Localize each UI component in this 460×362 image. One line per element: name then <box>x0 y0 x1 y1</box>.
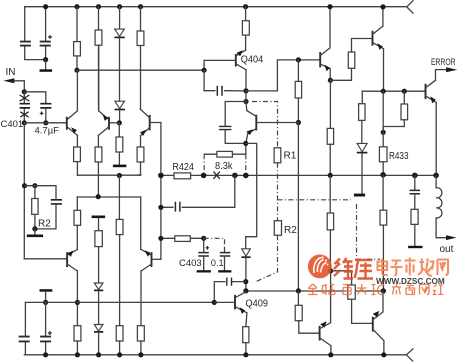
wire T5 emitter to T6 base resistor <box>330 68 351 80</box>
node bus / 8.3k right <box>243 173 249 179</box>
watermark logo circle <box>308 255 331 278</box>
transistor Q409 <box>234 295 236 310</box>
node bus / cap drop <box>232 173 238 179</box>
bottom-left ground bar <box>40 289 53 292</box>
node cap-h left <box>158 205 163 210</box>
resistor mid-h (x=161 to C403) <box>161 237 204 239</box>
node bottom-left <box>43 300 48 305</box>
resistor R2 (in dashed chain) <box>274 221 281 236</box>
resistor R-b (T2 emitter load) <box>98 7 100 111</box>
transistor T8 (driver PNP) <box>319 326 321 341</box>
diode D2 <box>115 101 125 108</box>
svg-text:Q409: Q409 <box>246 298 269 310</box>
node Q404 base drop <box>202 68 207 73</box>
svg-text:IN: IN <box>6 67 16 78</box>
resistor x=404 <box>403 91 405 104</box>
capacitor C-filter3 bottom-left <box>19 337 30 342</box>
node VAS bus left <box>243 288 248 293</box>
node rail T5 <box>327 4 332 9</box>
wire input lead <box>14 81 24 92</box>
svg-text:8.3k: 8.3k <box>215 160 233 172</box>
diode x=98 upper <box>94 283 103 290</box>
svg-text:R2: R2 <box>38 219 51 230</box>
wire Q404 base <box>204 60 236 70</box>
svg-text:R2: R2 <box>284 225 297 236</box>
wire output bus y=175.4 <box>161 174 436 176</box>
node Q404 collector <box>243 88 248 93</box>
node rail T6 <box>380 4 385 9</box>
resistor under T2 base node <box>118 123 120 165</box>
transistor T10 (lower-left PNP) <box>66 252 68 267</box>
node x383 join <box>381 130 386 135</box>
svg-text:R433: R433 <box>389 151 409 162</box>
wire x=298 long drop <box>297 123 299 292</box>
node bus inductor <box>433 173 439 179</box>
node R2 tap <box>22 183 27 188</box>
negative supply terminal chevron <box>406 349 413 361</box>
transistor T9 (driver PNP) <box>372 317 374 332</box>
node line-A / lower chain <box>117 173 122 178</box>
node input <box>22 89 27 94</box>
wire top supply rail <box>25 6 407 8</box>
diode x=362 <box>357 143 367 151</box>
wire y=91.2 bus <box>362 90 425 92</box>
diode D1 <box>119 7 121 29</box>
node bus zobel <box>412 173 418 179</box>
svg-text:0.1: 0.1 <box>211 258 224 268</box>
diode x=98 lower <box>94 325 103 332</box>
node 4.7uF out <box>43 120 48 125</box>
wire 8.3k right to emitter node <box>245 143 247 154</box>
x=119 lower chain resistor 2 <box>116 326 123 341</box>
input terminal arrow <box>3 78 14 83</box>
resistor T1 emitter <box>74 147 81 162</box>
transistor T1 (input NPN) <box>66 117 68 130</box>
capacitor zobel <box>414 175 416 190</box>
ground R2 <box>34 229 36 235</box>
node rail Q404 resistor <box>243 4 248 9</box>
capacitor Q404 base-collector <box>204 70 246 91</box>
node Qmid collector top <box>243 99 248 104</box>
wire emitter to VAS column <box>246 143 257 248</box>
dashed 8.3k left drop <box>203 154 205 175</box>
svg-text:C403: C403 <box>179 258 202 269</box>
svg-text:C401: C401 <box>1 119 24 130</box>
positive supply terminal chevron <box>407 1 413 13</box>
node Q409 feedback cap <box>243 279 248 284</box>
node top rail / cap2 <box>43 4 48 9</box>
resistor x=330 upper <box>329 80 331 128</box>
resistor R424 <box>174 173 191 179</box>
transistor T11 (lower-mid PNP) <box>151 252 153 267</box>
wire bottom caps <box>24 302 26 354</box>
node R424 left <box>158 173 164 179</box>
wire input column down <box>23 123 25 259</box>
node Qmid emitter <box>243 141 248 146</box>
x=119 lower chain resistor 1 <box>118 176 120 220</box>
node rail D1 <box>117 4 122 9</box>
resistor above T10 <box>74 210 81 225</box>
node x383 bus <box>380 172 386 178</box>
node driver bias <box>328 268 333 273</box>
wire line-B <box>77 196 140 198</box>
svg-text:Q404: Q404 <box>241 53 264 65</box>
node resistor mid left <box>158 236 163 241</box>
node Qmid base <box>296 120 301 125</box>
capacitor mid-h (x=161 to bus drop) <box>161 175 235 207</box>
capacitor Q409 b-c <box>214 282 246 303</box>
wire feedback return line y=302.4 <box>25 301 214 303</box>
diode VAS column <box>242 249 251 256</box>
node C401 out <box>22 120 27 125</box>
X mark on bus <box>213 172 220 179</box>
node x404 <box>402 89 407 94</box>
watermark bottom row (quan qiu zui da IC cai gou wang zhan) <box>308 284 444 295</box>
resistor x=362 <box>361 91 363 104</box>
node bottom rail T8 <box>328 352 333 357</box>
resistor T3 emitter <box>137 147 144 162</box>
capacitor C-filter2 polarized top-left <box>45 7 47 60</box>
resistor x=298 upper <box>297 60 299 123</box>
node C403 top <box>201 236 206 241</box>
ground C403 <box>197 270 211 272</box>
wire input node to 4.7uF <box>24 92 46 104</box>
node T10 collector / feedback line <box>75 300 80 305</box>
resistor T8 base (x=298 lower) <box>297 291 299 305</box>
node T5 emitter <box>328 78 333 83</box>
ground bar mid (x=119) <box>113 165 127 168</box>
node line-B / T2 collector <box>96 194 101 199</box>
resistor zobel <box>411 209 418 224</box>
svg-text:ERROR: ERROR <box>431 57 456 68</box>
resistor T11 collector <box>137 326 144 341</box>
resistor x=383 lower <box>382 175 384 210</box>
capacitor 4.7uF <box>40 104 51 108</box>
node rail R-a <box>74 4 79 9</box>
capacitor across R2 <box>51 200 62 204</box>
resistor x=98 chain <box>95 231 102 247</box>
resistor R1 (in dashed chain) <box>274 148 281 163</box>
out terminal arrow <box>446 235 457 240</box>
wire line-A emitter bus <box>77 174 140 176</box>
resistor T9 base <box>348 285 356 299</box>
resistor R-c (T3 collector load) <box>140 7 142 109</box>
ground 0.1 <box>218 270 231 272</box>
inductor L-out <box>435 175 437 187</box>
node T6 emitter <box>381 89 386 94</box>
node T5 base / x298 <box>296 57 301 62</box>
node VAS bus x383 <box>381 288 386 293</box>
wire T1 collector bus to Q404 base <box>77 69 204 71</box>
svg-text:R424: R424 <box>172 162 194 173</box>
watermark medium characters (dian zi shi chang wang) <box>378 258 449 277</box>
wire to T10 base <box>24 258 67 260</box>
dashed thermal line R1/R2 chain <box>252 102 278 148</box>
ground zobel <box>408 246 422 248</box>
transistor T3 <box>149 115 151 130</box>
resistor T2 collector <box>95 147 102 162</box>
wire R2 top <box>25 186 57 200</box>
transistor T6 (top-right NPN) <box>372 31 374 46</box>
ground x=362 <box>354 194 365 197</box>
node cap bottoms <box>43 57 48 62</box>
svg-text:R1: R1 <box>284 151 297 162</box>
resistor T10 collector <box>74 326 81 341</box>
WATERMARK <box>308 255 448 295</box>
resistor R2 <box>34 186 36 229</box>
transistor T5 (NPN, pre-driver) <box>319 52 321 67</box>
transistor Qmid (bias NPN) <box>255 115 257 131</box>
wire x383 column <box>382 91 384 147</box>
capacitor 0.1 <box>224 248 226 252</box>
watermark big characters (wei ku) <box>334 258 373 279</box>
node T2 base <box>117 120 122 125</box>
ground top-left <box>45 60 47 70</box>
node R2 bottom <box>32 226 37 231</box>
wire top-left rail drop to filter caps <box>25 7 46 60</box>
node bottom rail Q409 <box>243 352 248 357</box>
node bottom rail T9 <box>381 352 386 357</box>
transistor Q404 (PNP) <box>235 54 237 67</box>
capacitor C-filter1 top-left <box>20 42 31 46</box>
node T1 collector <box>74 68 79 73</box>
capacitor C401 (crossed out) <box>23 92 25 123</box>
resistor T6 base <box>348 52 355 68</box>
ERROR terminal arrow <box>446 67 457 72</box>
resistor x=330 lower <box>329 175 331 213</box>
resistor Q404 emitter <box>245 7 247 51</box>
wire base line to T1 <box>24 122 67 124</box>
node rail R-c <box>138 4 143 9</box>
dashed link to 0.1 cap <box>204 238 225 248</box>
node rail R-b <box>96 4 101 9</box>
svg-text:out: out <box>440 244 454 255</box>
resistor R433 <box>379 147 387 162</box>
transistor T2 (input PNP, mirrored) <box>108 117 110 130</box>
node x330 bus <box>328 173 333 178</box>
capacitor C403 <box>203 238 205 252</box>
svg-text:4.7µF: 4.7µF <box>35 126 60 137</box>
nodes bottom rail left <box>43 352 48 357</box>
ground bar x=98 chain <box>92 216 106 219</box>
resistor 8.3k <box>204 153 246 155</box>
node R424 right <box>201 173 207 179</box>
wire VAS collector bus y=291 <box>246 290 384 292</box>
capacitor C-filter4 polarized bottom-left <box>40 337 51 342</box>
node VAS bus x298 <box>296 288 301 293</box>
resistor Q409 emitter <box>243 327 249 343</box>
wire collector to T5 base riser <box>246 60 320 91</box>
dashed 8.3k right drop <box>245 154 247 175</box>
transistor T7 (ERROR output NPN) <box>425 84 427 99</box>
node Q409 base <box>212 300 217 305</box>
resistor R-a (T1 collector load) <box>76 7 78 70</box>
wire bottom supply rail <box>24 354 406 356</box>
capacitor Qmid c-e <box>225 102 246 144</box>
wire bias node to T9 base resistor <box>331 271 352 285</box>
